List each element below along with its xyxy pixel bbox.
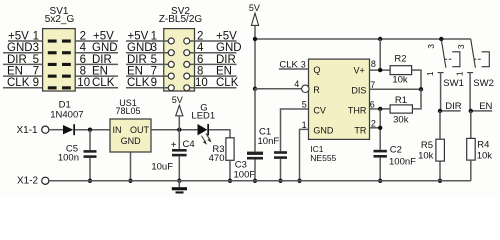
connector SV1 bbox=[43, 6, 76, 91]
svg-text:5x2_G: 5x2_G bbox=[45, 14, 75, 25]
svg-text:1: 1 bbox=[425, 71, 435, 76]
svg-text:R: R bbox=[313, 85, 320, 95]
svg-text:C2: C2 bbox=[390, 144, 402, 155]
capacitor C4 polarized bbox=[151, 130, 194, 181]
svg-text:8: 8 bbox=[80, 66, 86, 78]
svg-text:30k: 30k bbox=[393, 114, 409, 125]
regulator US1 78L05 bbox=[110, 98, 151, 152]
svg-text:3: 3 bbox=[301, 59, 306, 69]
node EN bbox=[469, 109, 473, 113]
svg-text:10k: 10k bbox=[477, 150, 493, 161]
svg-text:7: 7 bbox=[151, 66, 157, 78]
svg-text:100F: 100F bbox=[234, 169, 256, 180]
node C2 bottom bbox=[378, 179, 382, 183]
wire pin 6 THR bbox=[370, 100, 391, 110]
net label EN bbox=[471, 101, 493, 112]
svg-text:LED1: LED1 bbox=[191, 111, 215, 122]
svg-text:NE555: NE555 bbox=[310, 153, 336, 163]
terminal X1-2 bbox=[17, 176, 49, 187]
wire D1 to US1 bbox=[75, 129, 110, 131]
LED LED1 bbox=[191, 103, 215, 145]
SV2 socket circles bbox=[168, 38, 190, 91]
wire top 5V rail bbox=[255, 38, 471, 40]
svg-text:CLK: CLK bbox=[7, 77, 30, 89]
svg-text:Z-BL5/2G: Z-BL5/2G bbox=[159, 14, 203, 25]
svg-text:8: 8 bbox=[197, 66, 203, 78]
node at 5V arrow bbox=[253, 37, 257, 41]
diode D1 bbox=[50, 100, 83, 136]
resistor R5 bbox=[418, 139, 444, 181]
svg-text:10nF: 10nF bbox=[258, 136, 280, 147]
svg-text:1: 1 bbox=[454, 71, 464, 76]
svg-text:R5: R5 bbox=[421, 140, 433, 151]
svg-text:EN: EN bbox=[216, 66, 232, 78]
svg-text:9: 9 bbox=[33, 77, 39, 89]
svg-text:DIR: DIR bbox=[216, 54, 236, 66]
svg-text:GND: GND bbox=[313, 126, 334, 136]
svg-text:GND: GND bbox=[7, 42, 33, 54]
node US1 GND bottom bbox=[128, 179, 132, 183]
svg-text:5: 5 bbox=[33, 54, 39, 66]
node D1/C5 bbox=[88, 128, 92, 132]
svg-text:78L05: 78L05 bbox=[115, 106, 140, 116]
svg-text:TR: TR bbox=[354, 125, 366, 135]
svg-text:CV: CV bbox=[313, 105, 326, 115]
node pin 8 bbox=[378, 68, 382, 72]
wire 5V drop to reset node bbox=[254, 39, 256, 89]
svg-text:4: 4 bbox=[294, 79, 299, 89]
wire bottom rail bbox=[49, 180, 471, 182]
node DIR bbox=[438, 109, 442, 113]
wire reset node to pin 4 bbox=[255, 88, 302, 90]
svg-text:5: 5 bbox=[302, 100, 307, 110]
svg-text:1: 1 bbox=[33, 30, 39, 42]
svg-text:10: 10 bbox=[195, 77, 208, 89]
svg-text:6: 6 bbox=[370, 100, 375, 110]
svg-text:1: 1 bbox=[302, 120, 307, 130]
svg-text:OUT: OUT bbox=[130, 125, 150, 135]
svg-text:8: 8 bbox=[371, 59, 376, 69]
svg-text:DIR: DIR bbox=[7, 54, 27, 66]
node C5 bottom bbox=[88, 179, 92, 183]
node at SW1 top bbox=[439, 37, 443, 41]
switch SW2 bbox=[454, 39, 493, 111]
node at V+ branch bbox=[378, 37, 382, 41]
node R2/R1/DIS bbox=[419, 87, 423, 91]
wire LED to R3 bbox=[209, 130, 230, 138]
capacitor C2 bbox=[374, 144, 417, 180]
svg-text:3: 3 bbox=[33, 42, 39, 54]
wire US1 OUT to LED bbox=[151, 129, 198, 131]
svg-text:7: 7 bbox=[33, 66, 39, 78]
power 5V symbol at regulator output bbox=[172, 95, 183, 130]
connector SV2 bbox=[159, 6, 203, 91]
node R5 bottom bbox=[438, 179, 442, 183]
wire EN to R4 bbox=[470, 111, 472, 138]
svg-text:EN: EN bbox=[127, 66, 143, 78]
svg-text:DIS: DIS bbox=[351, 85, 366, 95]
svg-text:6: 6 bbox=[80, 54, 86, 66]
switch SW1 bbox=[425, 40, 464, 111]
timer IC1 NE555 bbox=[309, 59, 370, 163]
svg-text:9: 9 bbox=[151, 77, 157, 89]
svg-text:+5V: +5V bbox=[128, 30, 149, 42]
svg-text:+5V: +5V bbox=[216, 30, 237, 42]
SV2 right wires pins 2,4,6,8,10 bbox=[190, 41, 237, 88]
svg-text:THR: THR bbox=[348, 105, 367, 115]
node reset branch bbox=[253, 87, 257, 91]
terminal X1-1 bbox=[17, 125, 49, 136]
node OUT / 5V / C4 bbox=[177, 128, 181, 132]
svg-text:5V: 5V bbox=[249, 3, 260, 13]
svg-text:DIR: DIR bbox=[127, 54, 147, 66]
node C1 bottom bbox=[278, 179, 282, 183]
node C3 bottom bbox=[253, 179, 257, 183]
wire pin 7 DIS bbox=[370, 80, 422, 90]
svg-text:1N4007: 1N4007 bbox=[50, 110, 83, 121]
resistor R2 bbox=[390, 54, 421, 90]
svg-text:V+: V+ bbox=[354, 66, 365, 76]
svg-text:3: 3 bbox=[456, 44, 466, 49]
SV1 right wires pins 2,4,6,8,10 bbox=[75, 41, 118, 88]
svg-text:5V: 5V bbox=[172, 95, 183, 105]
resistor R1 bbox=[390, 89, 421, 125]
SV2 left pin labels bbox=[127, 30, 157, 89]
svg-text:R2: R2 bbox=[394, 54, 406, 65]
svg-text:3: 3 bbox=[151, 42, 157, 54]
svg-text:SW1: SW1 bbox=[443, 78, 464, 89]
svg-text:10k: 10k bbox=[392, 74, 408, 85]
resistor R4 bbox=[467, 138, 493, 180]
svg-text:10uF: 10uF bbox=[151, 162, 173, 173]
svg-text:4: 4 bbox=[80, 42, 87, 54]
power 5V symbol top bbox=[249, 3, 260, 39]
svg-text:CLK: CLK bbox=[92, 77, 115, 89]
svg-text:IN: IN bbox=[113, 125, 122, 135]
wire US1 GND down bbox=[130, 152, 132, 181]
wire pin 2 TR bbox=[370, 109, 381, 150]
svg-text:2: 2 bbox=[80, 30, 86, 42]
node THR branch bbox=[378, 107, 382, 111]
svg-text:CLK: CLK bbox=[216, 77, 239, 89]
svg-text:X1-2: X1-2 bbox=[17, 176, 39, 187]
node R3 bottom bbox=[228, 179, 232, 183]
svg-text:100n: 100n bbox=[58, 152, 79, 163]
svg-text:10k: 10k bbox=[418, 151, 434, 162]
svg-text:10: 10 bbox=[77, 77, 90, 89]
svg-text:+5V: +5V bbox=[8, 30, 29, 42]
svg-text:6: 6 bbox=[197, 54, 203, 66]
capacitor C5 bbox=[58, 130, 97, 181]
node TR branch bbox=[378, 126, 382, 130]
svg-text:R4: R4 bbox=[477, 140, 489, 151]
wire DIR to R5 bbox=[439, 111, 441, 139]
svg-text:CLK: CLK bbox=[127, 77, 150, 89]
svg-text:SW2: SW2 bbox=[473, 78, 494, 89]
svg-text:7: 7 bbox=[370, 80, 375, 90]
svg-text:100nF: 100nF bbox=[389, 156, 416, 167]
node C4 bottom bbox=[177, 179, 181, 183]
resistor R3 bbox=[209, 138, 234, 181]
wire X1-1 to D1 bbox=[49, 129, 63, 131]
svg-text:3: 3 bbox=[426, 44, 436, 49]
svg-text:470: 470 bbox=[209, 153, 225, 164]
svg-text:2: 2 bbox=[197, 30, 203, 42]
svg-text:EN: EN bbox=[92, 66, 108, 78]
wire pin 1 GND down bbox=[300, 120, 309, 181]
ground bbox=[172, 181, 187, 194]
svg-text:GND: GND bbox=[216, 42, 242, 54]
SV1 header pin dashes bbox=[48, 40, 71, 90]
svg-text:DIR: DIR bbox=[92, 54, 112, 66]
svg-text:4: 4 bbox=[197, 42, 204, 54]
svg-text:C4: C4 bbox=[183, 139, 195, 150]
SV1 right pin labels bbox=[77, 30, 117, 89]
SV1 left wires pins 1,3,5,7,9 bbox=[3, 41, 43, 88]
svg-text:5: 5 bbox=[151, 54, 157, 66]
SV2 left wires pins 1,3,5,7,9 bbox=[126, 41, 169, 88]
wire pin 8 V+ bbox=[370, 39, 391, 70]
svg-text:1: 1 bbox=[151, 30, 157, 42]
svg-text:+5V: +5V bbox=[93, 30, 114, 42]
net label DIR bbox=[440, 101, 462, 112]
SV2 right pin labels bbox=[195, 30, 242, 89]
pin 4 inversion circle bbox=[294, 79, 309, 92]
capacitor C1 bbox=[258, 109, 309, 181]
SV1 left pin labels bbox=[7, 30, 39, 89]
capacitor C3 bbox=[234, 89, 264, 181]
node pin1 bottom bbox=[297, 179, 301, 183]
svg-text:X1-1: X1-1 bbox=[17, 125, 39, 136]
svg-text:GND: GND bbox=[127, 42, 153, 54]
svg-text:GND: GND bbox=[121, 136, 142, 146]
svg-text:Q: Q bbox=[313, 65, 320, 75]
wire CLK stub to pin 3 bbox=[279, 59, 309, 70]
svg-text:EN: EN bbox=[7, 66, 23, 78]
svg-text:GND: GND bbox=[92, 42, 118, 54]
